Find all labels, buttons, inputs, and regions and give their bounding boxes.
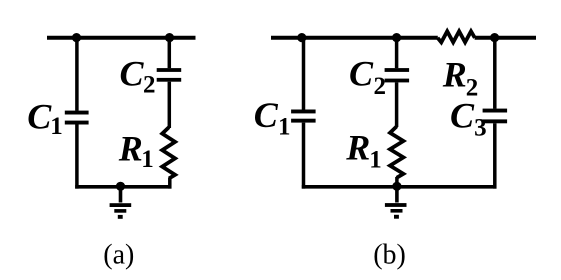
node: junction of C2 branch with top rail (b) xyxy=(392,33,401,42)
node: junction of R2 and C3 branch (b) xyxy=(490,33,499,42)
node: ground junction (b) xyxy=(392,182,401,191)
wire: from C2 down to R1 (a) xyxy=(168,82,172,128)
wire: circuit (b) top rail left segment xyxy=(271,36,438,40)
wire: from R2 node down to C3 (b) xyxy=(493,38,497,109)
capacitor C2 (circuit b) xyxy=(385,68,410,82)
wire: from C3 down to bottom rail (b) xyxy=(493,123,497,188)
ground (circuit b) xyxy=(385,186,407,218)
wire: from top rail down to C2 (b) xyxy=(395,38,399,68)
svg-text:1: 1 xyxy=(278,114,291,141)
wire: circuit (a) top rail xyxy=(47,36,196,40)
svg-text:1: 1 xyxy=(369,147,382,174)
wire: circuit (b) top rail right segment xyxy=(475,36,536,40)
label R1 (circuit a) xyxy=(118,129,154,174)
label R2 (circuit b) xyxy=(442,54,479,101)
wire: from top rail down to C1 (b) xyxy=(302,38,306,110)
svg-text:R: R xyxy=(442,54,467,94)
capacitor C1 (circuit a) xyxy=(65,111,89,125)
svg-text:R: R xyxy=(345,128,370,168)
wire: from C1 down to bottom rail (b) xyxy=(302,123,306,189)
label C2 (circuit b) xyxy=(349,54,386,101)
node: junction of C1 branch with top rail (a) xyxy=(72,33,81,42)
node: junction of C1 branch with top rail (b) xyxy=(297,33,306,42)
svg-text:C: C xyxy=(254,95,279,135)
wire: from R1 down to bottom rail (b) xyxy=(395,177,399,189)
resistor R1 (circuit a) xyxy=(162,127,175,178)
label C1 (circuit a) xyxy=(27,97,62,141)
wire: from top rail down to C1 (a) xyxy=(75,38,79,111)
svg-text:(b): (b) xyxy=(373,240,406,271)
svg-text:R: R xyxy=(118,129,143,169)
ground (circuit a) xyxy=(110,186,132,218)
label R1 (circuit b) xyxy=(345,128,382,174)
label C3 (circuit b) xyxy=(450,96,487,142)
svg-text:C: C xyxy=(27,97,52,137)
node: junction of C2 branch with top rail (a) xyxy=(165,33,174,42)
svg-text:C: C xyxy=(450,96,475,136)
capacitor C2 (circuit a) xyxy=(157,68,182,82)
resistor R1 (circuit b) xyxy=(390,126,403,177)
capacitor C3 (circuit b) xyxy=(483,109,508,124)
wire: from C2 down to R1 (b) xyxy=(395,82,399,127)
capacitor C1 (circuit b) xyxy=(291,110,316,123)
node: ground junction (a) xyxy=(116,182,125,191)
svg-text:2: 2 xyxy=(143,72,156,99)
wire: from top rail down to C2 (a) xyxy=(168,38,172,68)
svg-text:C: C xyxy=(349,54,374,94)
label C2 (circuit a) xyxy=(120,54,156,99)
resistor R2 (circuit b) xyxy=(438,31,475,42)
svg-text:1: 1 xyxy=(141,146,154,173)
svg-text:C: C xyxy=(120,54,145,94)
wire: from C1 down to bottom rail (a) xyxy=(75,124,79,188)
wire: circuit (a) bottom rail xyxy=(75,185,171,189)
svg-text:1: 1 xyxy=(50,113,63,140)
wire: circuit (b) bottom rail xyxy=(302,185,497,189)
svg-text:(a): (a) xyxy=(103,240,134,271)
label C1 (circuit b) xyxy=(254,95,291,141)
wire: from R1 down to bottom rail (a) xyxy=(168,178,172,189)
svg-text:2: 2 xyxy=(374,73,387,100)
svg-text:3: 3 xyxy=(474,115,487,142)
